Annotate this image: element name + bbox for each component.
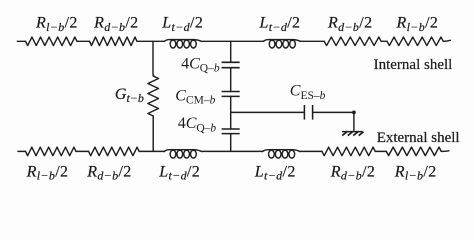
svg-text:Internal shell: Internal shell — [374, 57, 453, 73]
svg-text:External shell: External shell — [377, 130, 460, 146]
